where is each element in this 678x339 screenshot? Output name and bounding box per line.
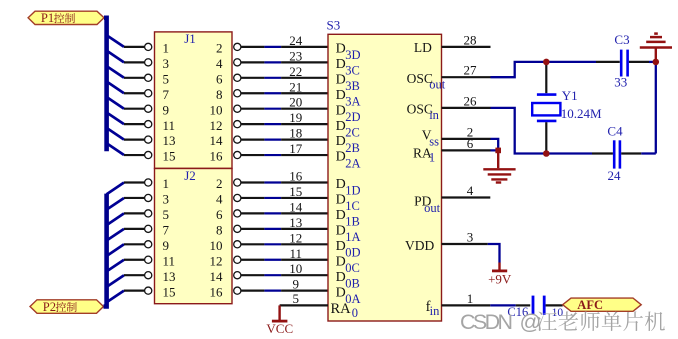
- pin name OSCout: [407, 71, 446, 92]
- wire net to chip pin 24: [234, 43, 281, 50]
- wire right vertical: [655, 62, 657, 154]
- chip pin 3 (VDD): [442, 229, 488, 244]
- chip pin 17: [281, 141, 328, 156]
- pin name D1D: [336, 177, 361, 198]
- chip pin 5 (RA0) wire: [280, 291, 328, 306]
- svg-text:1B: 1B: [345, 215, 360, 229]
- svg-text:VDD: VDD: [405, 238, 434, 253]
- svg-text:2C: 2C: [345, 125, 360, 139]
- pin name RA0: [331, 301, 359, 320]
- wire net to chip pin 13: [234, 225, 281, 232]
- svg-text:5: 5: [163, 207, 170, 222]
- svg-text:19: 19: [289, 110, 302, 125]
- svg-text:26: 26: [464, 93, 478, 108]
- svg-text:21: 21: [289, 79, 302, 94]
- svg-text:33: 33: [614, 75, 627, 90]
- svg-text:P2: P2: [43, 300, 56, 314]
- wire bus fan J1 row 15: [107, 143, 152, 158]
- wire fin net: [490, 304, 515, 306]
- svg-text:out: out: [429, 78, 446, 92]
- pin name D0B: [336, 270, 360, 291]
- port AFC: [563, 298, 642, 312]
- svg-text:16: 16: [289, 169, 303, 184]
- chip pin 1 (fin): [442, 291, 491, 306]
- svg-text:0C: 0C: [345, 261, 360, 275]
- connector J1: [155, 31, 233, 168]
- pin name RA1: [413, 145, 435, 164]
- svg-text:P1: P1: [41, 11, 54, 25]
- svg-text:24: 24: [289, 33, 303, 48]
- wire bus fan J1 row 11: [107, 113, 152, 128]
- capacitor C16: [507, 296, 563, 319]
- svg-text:S3: S3: [327, 17, 341, 32]
- wire net to chip pin 22: [234, 74, 281, 81]
- pin name D3D: [336, 42, 361, 63]
- wire net to chip pin 21: [234, 90, 281, 97]
- wire bus fan J2 row 13: [107, 272, 152, 287]
- chip pin 12: [281, 230, 328, 245]
- svg-text:23: 23: [289, 48, 302, 63]
- svg-text:3: 3: [163, 192, 170, 207]
- svg-text:1D: 1D: [345, 184, 360, 198]
- svg-text:10: 10: [289, 261, 302, 276]
- svg-text:CSDN: CSDN: [460, 310, 513, 334]
- bus wire P1: [104, 18, 107, 152]
- bus wire P2: [104, 194, 107, 307]
- svg-text:10: 10: [552, 307, 564, 319]
- wire bus fan J2 row 15: [107, 287, 152, 302]
- svg-text:in: in: [429, 108, 439, 122]
- chip pin 10: [281, 261, 328, 276]
- chip pin 23: [281, 48, 328, 63]
- svg-text:J2: J2: [184, 168, 196, 183]
- wire bus fan J1 row 7: [107, 82, 152, 97]
- chip pin 22: [281, 64, 328, 79]
- svg-text:8: 8: [216, 222, 223, 237]
- svg-text:11: 11: [163, 253, 176, 268]
- svg-text:17: 17: [289, 141, 303, 156]
- wire net to chip pin 10: [234, 272, 281, 279]
- wire bus fan J2 row 9: [107, 241, 152, 256]
- svg-text:out: out: [424, 201, 441, 215]
- pin name fin: [426, 299, 440, 318]
- chip pin 27 (OSCout): [442, 63, 491, 78]
- svg-text:16: 16: [210, 149, 224, 164]
- capacitor C4: [592, 123, 656, 183]
- wire bus fan J1 row 5: [107, 66, 152, 81]
- svg-text:6: 6: [467, 136, 474, 151]
- pin name D2B: [336, 134, 360, 155]
- svg-text:RA: RA: [331, 301, 352, 317]
- svg-text:12: 12: [210, 253, 223, 268]
- power VCC: [266, 305, 293, 335]
- chip pin 4 (PDout): [442, 183, 491, 198]
- svg-text:6: 6: [216, 71, 223, 86]
- wire OSCin net: [491, 108, 593, 154]
- svg-text:0: 0: [352, 306, 358, 320]
- pin name D0A: [336, 285, 361, 306]
- svg-text:LD: LD: [414, 40, 432, 55]
- svg-text:20: 20: [289, 95, 302, 110]
- svg-text:9: 9: [163, 102, 170, 117]
- junction Vss/RA1: [495, 148, 501, 154]
- wire bus fan J1 row 1: [107, 35, 152, 50]
- svg-text:10.24M: 10.24M: [561, 106, 602, 121]
- svg-text:10: 10: [210, 102, 223, 117]
- svg-text:11: 11: [290, 246, 303, 261]
- chip pin 14: [281, 199, 328, 214]
- svg-text:1A: 1A: [345, 230, 360, 244]
- wire net to chip pin 23: [234, 59, 281, 66]
- chip pin 13: [281, 215, 328, 230]
- wire VDD net: [488, 244, 500, 263]
- earth ground top right: [640, 34, 672, 62]
- wire net to chip pin 17: [234, 151, 281, 158]
- pin name D1C: [336, 193, 360, 214]
- wire OSCout net: [491, 62, 597, 77]
- svg-text:4: 4: [467, 183, 474, 198]
- wire bus fan J2 row 3: [107, 194, 152, 209]
- wire bus fan J2 row 11: [107, 256, 152, 271]
- svg-text:4: 4: [216, 56, 223, 71]
- pin name D3B: [336, 72, 360, 93]
- svg-text:0B: 0B: [345, 276, 360, 290]
- pin name Vss: [422, 128, 439, 149]
- svg-text:C3: C3: [614, 32, 629, 47]
- port P2控制: [30, 300, 104, 314]
- svg-text:12: 12: [289, 230, 302, 245]
- wire Vss to RA1: [491, 139, 499, 151]
- svg-text:in: in: [430, 304, 440, 318]
- pin name VDD: [405, 238, 434, 253]
- junction C3/earth: [653, 59, 660, 66]
- ground GND below RA1: [483, 150, 515, 182]
- svg-text:14: 14: [289, 199, 303, 214]
- svg-text:7: 7: [163, 222, 170, 237]
- chip pin 26 (OSCin): [442, 93, 491, 108]
- svg-text:9: 9: [163, 238, 170, 253]
- pin name D3A: [336, 88, 361, 109]
- pin name D2C: [336, 119, 360, 140]
- chip pin 6 (RA1): [442, 136, 491, 151]
- pin name PDout: [414, 194, 441, 215]
- svg-text:6: 6: [216, 207, 223, 222]
- chip pin 2 (Vss): [442, 124, 491, 139]
- svg-text:12: 12: [210, 118, 223, 133]
- wire bus fan J1 row 9: [107, 97, 152, 112]
- svg-text:14: 14: [210, 269, 224, 284]
- chip pin 16: [281, 169, 328, 184]
- svg-text:24: 24: [608, 168, 622, 183]
- wire net to chip pin 16: [234, 179, 281, 186]
- junction OSCin/crystal: [543, 150, 550, 157]
- svg-text:3A: 3A: [345, 94, 360, 108]
- wire net to chip pin 9: [234, 287, 281, 294]
- svg-text:13: 13: [163, 133, 176, 148]
- svg-text:5: 5: [293, 291, 300, 306]
- svg-text:1C: 1C: [345, 199, 360, 213]
- crystal Y1: [532, 62, 602, 154]
- svg-text:2B: 2B: [345, 141, 360, 155]
- pin name OSCin: [407, 102, 440, 123]
- wire net to chip pin 19: [234, 121, 281, 128]
- svg-text:2D: 2D: [345, 110, 360, 124]
- pin name D1A: [336, 223, 361, 244]
- svg-text:J1: J1: [184, 31, 196, 46]
- svg-text:Y1: Y1: [562, 88, 578, 103]
- svg-text:C4: C4: [607, 123, 623, 138]
- svg-text:1: 1: [429, 150, 435, 164]
- wire bus fan J1 row 13: [107, 128, 152, 143]
- wire net to chip pin 14: [234, 210, 281, 217]
- wire net to chip pin 15: [234, 194, 281, 201]
- svg-text:VCC: VCC: [266, 321, 293, 336]
- svg-text:4: 4: [216, 192, 223, 207]
- svg-text:1: 1: [163, 176, 170, 191]
- svg-text:15: 15: [163, 149, 176, 164]
- wire net to chip pin 11: [234, 256, 281, 263]
- svg-text:10: 10: [210, 238, 223, 253]
- watermark: [460, 310, 665, 334]
- chip pin 24: [281, 33, 328, 48]
- svg-text:8: 8: [216, 87, 223, 102]
- chip pin 11: [281, 246, 328, 261]
- svg-text:9: 9: [293, 277, 300, 292]
- pin name D3C: [336, 57, 360, 78]
- capacitor C3: [596, 32, 656, 90]
- power +9V: [488, 263, 512, 287]
- svg-text:2: 2: [216, 176, 223, 191]
- svg-text:1: 1: [163, 41, 170, 56]
- svg-text:3: 3: [163, 56, 170, 71]
- svg-text:5: 5: [163, 71, 170, 86]
- pin name D1B: [336, 208, 360, 229]
- wire bus fan J2 row 1: [107, 179, 152, 194]
- svg-text:28: 28: [464, 32, 477, 47]
- chip pin 19: [281, 110, 328, 125]
- connector J1/J2 shared border: [155, 168, 233, 170]
- svg-text:@: @: [520, 310, 542, 334]
- svg-text:11: 11: [163, 118, 176, 133]
- svg-text:0D: 0D: [345, 246, 360, 260]
- chip pin 18: [281, 126, 328, 141]
- op IC S3 body: [327, 17, 442, 321]
- svg-text:13: 13: [289, 215, 302, 230]
- svg-text:+9V: +9V: [488, 272, 512, 287]
- pin name D2D: [336, 103, 361, 124]
- svg-text:14: 14: [210, 133, 224, 148]
- svg-text:3C: 3C: [345, 64, 360, 78]
- svg-text:2A: 2A: [345, 156, 360, 170]
- wire bus fan J2 row 5: [107, 210, 152, 225]
- connector J2: [155, 168, 233, 304]
- port P1控制: [28, 11, 104, 25]
- svg-text:3: 3: [467, 229, 474, 244]
- svg-text:18: 18: [289, 126, 302, 141]
- wire net to chip pin 18: [234, 136, 281, 143]
- chip pin 21: [281, 79, 328, 94]
- wire bus fan J1 row 3: [107, 51, 152, 66]
- svg-text:16: 16: [210, 284, 224, 299]
- svg-text:1: 1: [467, 291, 474, 306]
- chip pin 15: [281, 184, 328, 199]
- svg-text:15: 15: [289, 184, 302, 199]
- chip pin 9: [281, 277, 328, 292]
- svg-text:AFC: AFC: [577, 298, 603, 312]
- wire bus fan J2 row 7: [107, 225, 152, 240]
- chip pin 20: [281, 95, 328, 110]
- wire net to chip pin 20: [234, 105, 281, 112]
- junction OSCout/crystal: [543, 59, 550, 66]
- pin name D0D: [336, 239, 361, 260]
- pin name D2A: [336, 150, 361, 171]
- svg-text:3D: 3D: [345, 48, 360, 62]
- svg-text:7: 7: [163, 87, 170, 102]
- svg-text:2: 2: [216, 41, 223, 56]
- svg-text:27: 27: [464, 63, 478, 78]
- svg-text:22: 22: [289, 64, 302, 79]
- svg-text:3B: 3B: [345, 79, 360, 93]
- svg-text:13: 13: [163, 269, 176, 284]
- pin name LD: [414, 40, 432, 55]
- wire net to chip pin 12: [234, 241, 281, 248]
- chip pin 28 (LD): [442, 32, 491, 47]
- pin name D0C: [336, 254, 360, 275]
- svg-text:15: 15: [163, 284, 176, 299]
